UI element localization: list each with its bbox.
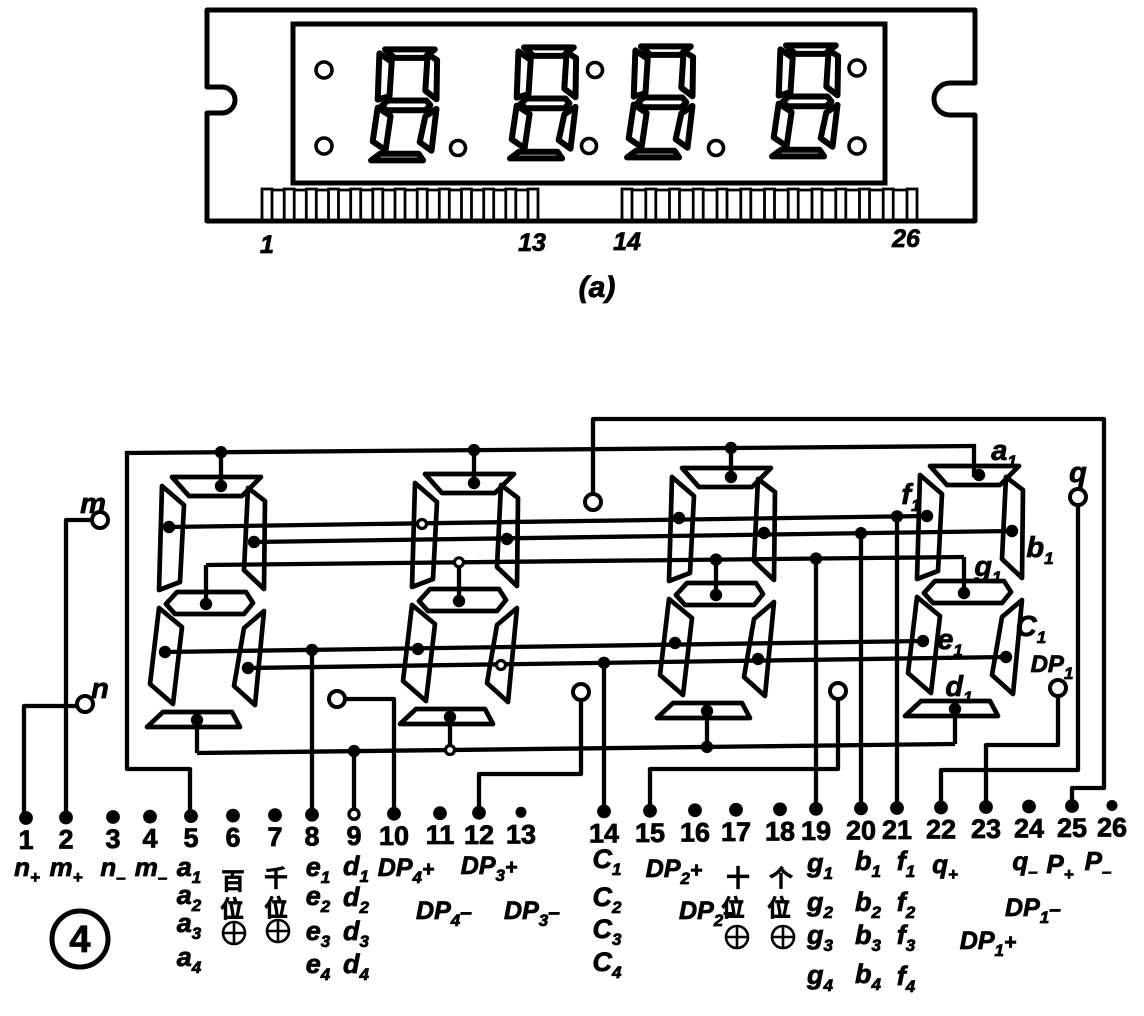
decimal point DP2 — [709, 141, 724, 156]
pin 23 pad — [979, 800, 993, 814]
junction d-bus digit 2 — [701, 741, 713, 753]
wire a-bus to pin 5 — [127, 453, 190, 816]
pin 15 pad — [643, 804, 657, 818]
svg-text:14: 14 — [613, 228, 641, 256]
schematic digit 3 (7-segment) — [425, 474, 514, 493]
pin 26 pad — [1107, 800, 1118, 811]
svg-text:n: n — [91, 673, 109, 705]
wire a stub digit 3 — [472, 450, 476, 483]
junction segment a digit 2 — [725, 471, 737, 483]
svg-text:9: 9 — [346, 821, 361, 851]
svg-text:15: 15 — [635, 818, 665, 848]
junction segment g digit 2 — [710, 589, 722, 601]
svg-text:1: 1 — [18, 825, 33, 855]
schematic digit 2 (7-segment) — [682, 468, 771, 487]
wire segment-f bus — [169, 516, 927, 527]
pin 19 pad — [809, 802, 823, 816]
wire a stub digit 1 — [972, 446, 976, 475]
display digit 1 (7-segment outline) — [385, 49, 435, 58]
wire a stub digit 4 — [219, 452, 223, 486]
right indicator dot upper — [849, 60, 865, 76]
pin 11 pad — [433, 806, 447, 820]
svg-text:位: 位 — [221, 896, 244, 922]
svg-text:3: 3 — [105, 824, 120, 854]
wire terminal q to pin 22 — [941, 505, 1078, 808]
symbol units common electrode — [772, 926, 794, 948]
pin 4 pad — [143, 810, 157, 824]
junction segment e digit 3 — [412, 643, 424, 655]
display window frame — [293, 24, 885, 183]
wire terminal P to pin 25 — [593, 419, 1104, 806]
pin 1 pad — [19, 811, 33, 825]
svg-text:10: 10 — [379, 821, 409, 851]
junction segment b digit 2 — [758, 527, 770, 539]
svg-text:19: 19 — [801, 816, 831, 846]
pin comb pins 14-26 — [622, 189, 917, 192]
junction d-bus digit 3 (ring) — [446, 746, 455, 755]
svg-text:16: 16 — [680, 817, 710, 847]
pin 10 pad — [387, 807, 401, 821]
wire f-bus to pin 21 — [895, 516, 899, 808]
junction segment b digit 1 — [1006, 525, 1018, 537]
decimal point DP4 — [451, 141, 466, 156]
display module package outline — [207, 10, 975, 221]
junction segment e digit 4 — [159, 646, 171, 658]
svg-text:2: 2 — [58, 825, 73, 855]
svg-text:7: 7 — [267, 822, 282, 852]
wire g-bus to digit4 g — [204, 565, 208, 604]
junction segment a digit 3 — [468, 477, 480, 489]
figure number circled 4 — [52, 911, 108, 967]
junction segment c digit 3 (ring) — [497, 661, 506, 670]
pin 12 pad — [472, 806, 486, 820]
svg-text:个: 个 — [770, 865, 794, 891]
wire g-bus to pin 19 — [814, 559, 818, 809]
wire g stub digit 3 — [457, 562, 461, 601]
display digit 3 (7-segment outline) — [641, 46, 691, 55]
junction segment d digit 4 — [191, 714, 203, 726]
pin 16 pad — [688, 803, 702, 817]
svg-text:4: 4 — [69, 919, 90, 961]
junction segment b digit 4 — [248, 536, 260, 548]
wire d stub digit 2 — [705, 711, 709, 747]
svg-text:18: 18 — [765, 816, 795, 846]
terminal DP3+ — [573, 684, 589, 700]
wire terminal n to pin 1 — [24, 706, 77, 818]
junction segment f digit 4 — [163, 521, 175, 533]
pin 6 pad — [226, 809, 240, 823]
svg-text:位: 位 — [265, 895, 288, 921]
wire d stub digit 3 — [448, 717, 452, 750]
terminal n — [77, 696, 93, 712]
junction segment a digit 1 — [973, 469, 985, 481]
junction segment f digit 3 (ring) — [418, 520, 427, 529]
junction g-bus pin19 — [810, 552, 822, 564]
pin 25 pad — [1065, 799, 1079, 813]
svg-text:十: 十 — [727, 865, 750, 891]
pin 18 pad — [773, 802, 787, 816]
junction a-bus digit 4 — [215, 446, 227, 458]
left indicator dot lower — [316, 138, 332, 154]
wire segment-g bus — [206, 557, 964, 565]
wire segment-d bus — [197, 744, 955, 753]
wire a stub digit 2 — [729, 448, 733, 477]
pin 2 pad — [59, 811, 73, 825]
symbol tens common electrode — [726, 926, 748, 948]
wire d stub digit 4 — [195, 720, 199, 753]
svg-text:13: 13 — [506, 819, 536, 849]
wire segment-b bus — [254, 531, 1012, 542]
terminal DP2+ — [830, 683, 846, 699]
junction segment c digit 4 — [242, 662, 254, 674]
svg-text:4: 4 — [142, 824, 157, 854]
junction segment f digit 1 — [921, 510, 933, 522]
svg-text:位: 位 — [722, 895, 745, 921]
pin 21 pad — [890, 801, 904, 815]
terminal P — [585, 494, 601, 510]
junction g-bus digit 2 — [710, 553, 722, 565]
wire d-bus to pin 9 — [352, 751, 356, 814]
junction a-bus digit 3 — [468, 444, 480, 456]
wire g-bus to digit1 g — [962, 557, 966, 593]
junction segment f digit 2 — [673, 512, 685, 524]
junction c-bus pin14 — [598, 657, 610, 669]
left indicator dot upper — [316, 62, 332, 78]
svg-text:千: 千 — [265, 865, 288, 891]
svg-text:24: 24 — [1014, 814, 1044, 844]
svg-text:17: 17 — [721, 817, 751, 847]
pin 22 pad — [934, 801, 948, 815]
pin 24 pad — [1022, 800, 1036, 814]
svg-text:m: m — [80, 488, 106, 520]
junction segment g digit 4 — [200, 598, 212, 610]
svg-text:5: 5 — [183, 823, 198, 853]
junction segment c digit 1 — [1000, 651, 1012, 663]
svg-text:1: 1 — [260, 231, 274, 259]
pin 20 pad — [854, 802, 868, 816]
pin 3 pad — [106, 810, 120, 824]
pin 8 pad — [305, 808, 319, 822]
svg-text:13: 13 — [518, 229, 546, 257]
wire terminal DP1+ to pin 23 — [986, 696, 1058, 807]
pin 17 pad — [729, 803, 743, 817]
symbol hundreds common electrode — [223, 922, 245, 944]
junction a-bus digit 2 — [725, 442, 737, 454]
schematic digit 1 (7-segment) — [930, 466, 1019, 485]
svg-text:21: 21 — [882, 815, 912, 845]
junction segment e digit 1 — [917, 635, 929, 647]
terminal m — [92, 512, 108, 528]
display digit 2 (7-segment outline) — [524, 47, 574, 56]
pin 5 pad — [184, 809, 198, 823]
wire c-bus to pin 14 — [602, 663, 606, 812]
colon dot upper — [588, 63, 603, 78]
svg-text:26: 26 — [1097, 813, 1127, 843]
pin comb pins 1-13 — [262, 189, 538, 192]
wire segment-a bus — [127, 446, 974, 453]
svg-text:26: 26 — [891, 225, 921, 253]
wire g stub digit 2 — [714, 560, 718, 595]
wire d stub digit 1 — [953, 709, 957, 744]
junction segment e digit 2 — [669, 637, 681, 649]
junction g-bus digit 3 (ring) — [455, 558, 464, 567]
svg-text:q: q — [1069, 457, 1087, 489]
svg-text:25: 25 — [1057, 813, 1087, 843]
wire segment-e bus — [165, 641, 923, 652]
terminal DP1+ — [1050, 680, 1066, 696]
junction segment a digit 4 — [215, 480, 227, 492]
wire terminal DP3+ to pin 12 — [479, 700, 581, 813]
terminal DP4+ — [329, 691, 345, 707]
junction segment b digit 3 — [501, 533, 513, 545]
pin 7 pad — [268, 808, 282, 822]
svg-text:6: 6 — [225, 823, 240, 853]
junction f-bus pin21 — [891, 510, 903, 522]
wire terminal DP2+ to pin 15 — [650, 699, 838, 811]
junction segment g digit 3 — [453, 595, 465, 607]
svg-text:23: 23 — [971, 814, 1001, 844]
wire segment-c bus — [248, 657, 1006, 668]
svg-text:22: 22 — [926, 815, 956, 845]
junction segment g digit 1 — [958, 587, 970, 599]
wire e-bus to pin 8 — [310, 650, 314, 815]
wire terminal m to pin 2 — [66, 520, 92, 818]
colon dot lower — [582, 139, 597, 154]
pin 9 pad (ring) — [349, 809, 359, 819]
svg-text:百: 百 — [222, 868, 245, 894]
display digit 4 (7-segment outline) — [786, 45, 836, 54]
svg-text:11: 11 — [426, 820, 455, 850]
svg-text:8: 8 — [304, 822, 319, 852]
junction b-bus pin20 — [855, 527, 867, 539]
svg-text:位: 位 — [768, 895, 791, 921]
svg-text:(a): (a) — [579, 271, 616, 304]
svg-text:20: 20 — [846, 815, 876, 845]
junction e-bus pin8 — [306, 644, 318, 656]
wire terminal DP4+ to pin 10 — [345, 699, 394, 814]
schematic digit 4 (7-segment) — [172, 477, 261, 496]
junction d-bus pin9 — [348, 745, 360, 757]
right indicator dot lower — [849, 138, 865, 154]
junction segment c digit 2 — [752, 653, 764, 665]
junction segment d digit 2 — [701, 705, 713, 717]
pin 13 pad — [516, 807, 527, 818]
symbol thousands common electrode — [267, 920, 289, 942]
pin 14 pad — [597, 805, 611, 819]
terminal q — [1070, 489, 1086, 505]
svg-text:12: 12 — [464, 820, 494, 850]
junction segment d digit 1 — [949, 703, 961, 715]
wire b-bus to pin 20 — [859, 533, 863, 808]
junction segment d digit 3 — [444, 711, 456, 723]
